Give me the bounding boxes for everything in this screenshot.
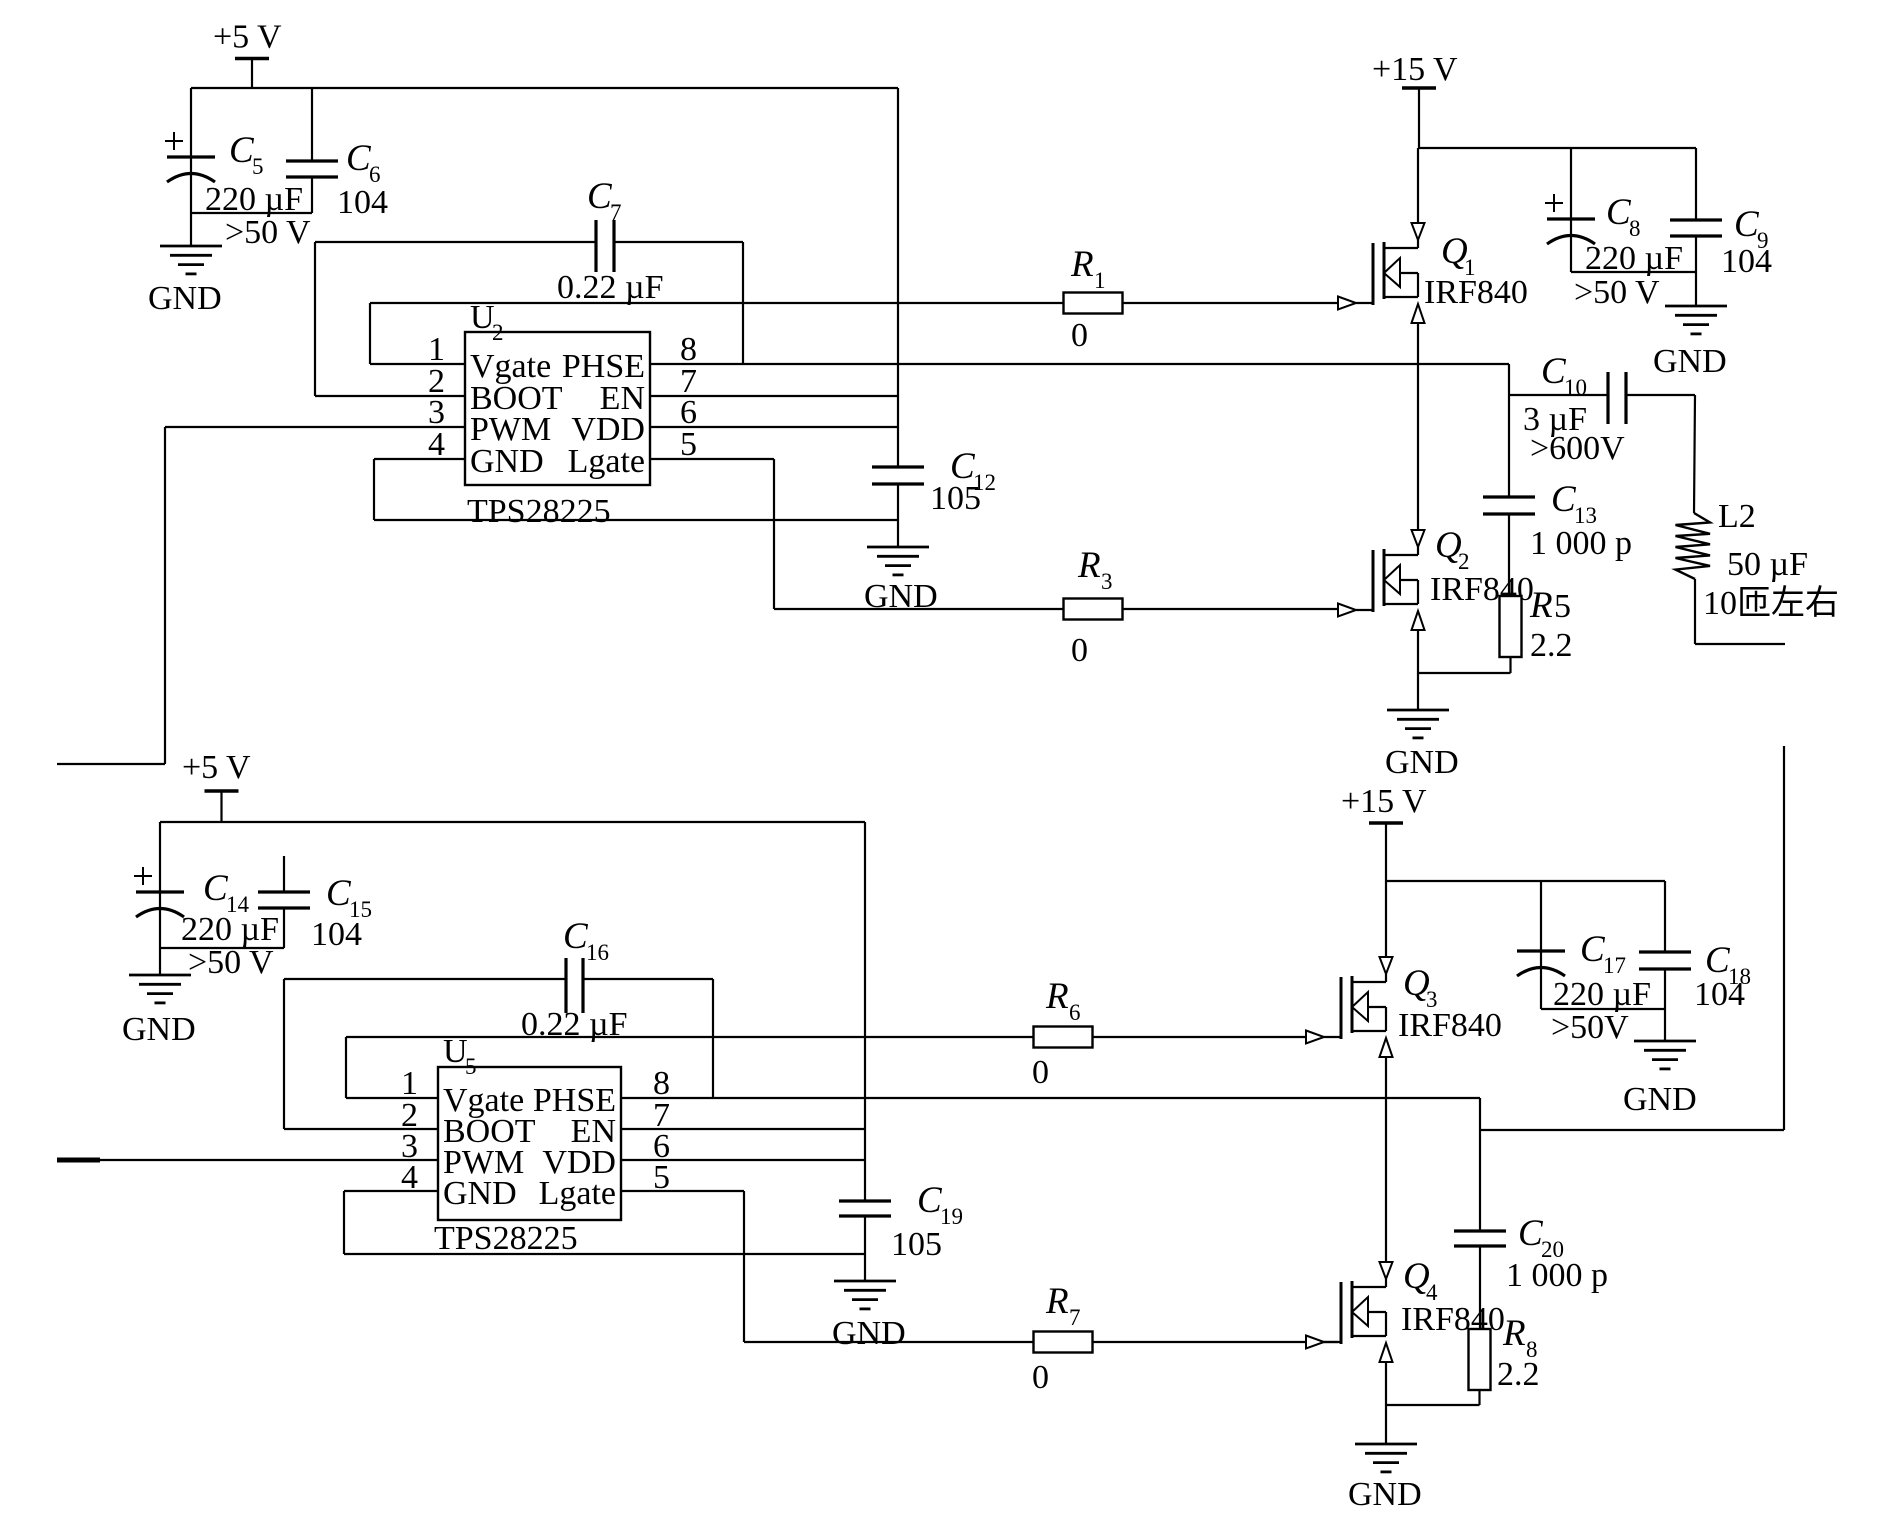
wire U5 pin5 lead (621, 1190, 744, 1192)
wire C16 right lead (583, 978, 713, 980)
wire +5V rail bottom (160, 821, 865, 823)
wire R5 bottom lead (1509, 657, 1511, 673)
svg-text:0: 0 (1071, 317, 1088, 354)
transistor Q2 (N-MOSFET) (1338, 530, 1425, 630)
svg-text:TPS28225: TPS28225 (434, 1220, 578, 1257)
svg-text:104: 104 (1694, 976, 1745, 1013)
wire C19 bottom lead (864, 1216, 866, 1281)
wire C10 right drop to L2 (1694, 395, 1695, 513)
wire C17 through lead (1540, 951, 1542, 1009)
wire U5 pin1 lead (346, 1097, 438, 1099)
wire Vgate drive line to R6/Q3 (346, 1036, 1306, 1038)
wire C14-C15 bottom join (160, 947, 284, 949)
wire U2 pin4 drop (373, 459, 375, 520)
ground GND below Q4 (1355, 1444, 1417, 1472)
resistor R1 (1064, 293, 1123, 314)
svg-text:IRF840: IRF840 (1398, 1007, 1502, 1044)
IC U2 TPS28225 (465, 332, 650, 485)
svg-text:3: 3 (1101, 569, 1113, 594)
svg-text:GND: GND (148, 280, 222, 317)
wire U2 pin3 lead (165, 426, 465, 428)
svg-text:2.2: 2.2 (1530, 627, 1573, 664)
svg-text:0: 0 (1032, 1054, 1049, 1091)
wire C5-C6 bottom join (191, 212, 312, 214)
wire +5V branch vertical to EN/VDD/C12 (897, 88, 899, 467)
wire U5 pin4 ground return (344, 1253, 865, 1255)
svg-text:220 µF: 220 µF (181, 911, 279, 948)
wire +15V rail to C8/C9 (1419, 147, 1696, 149)
wire Q3 drain feed (1385, 881, 1387, 957)
svg-text:104: 104 (337, 184, 388, 221)
wire Lgate drive line to R3/Q2 (774, 608, 1338, 610)
wire switch node Q3 source to Q4 drain (1385, 1056, 1387, 1262)
wire U2 pin7 EN lead (650, 395, 898, 397)
wire U2 pin6 VDD lead (650, 426, 898, 428)
svg-text:104: 104 (311, 916, 362, 953)
svg-text:GND: GND (1653, 343, 1727, 380)
wire Q4 source to ground (1385, 1361, 1387, 1444)
wire C16 left vertical to BOOT (283, 979, 285, 1129)
svg-text:+5 V: +5 V (213, 19, 282, 56)
capacitor C19 (839, 1201, 891, 1216)
wire U2 pin2 lead (315, 395, 465, 397)
power symbol +5V bottom (182, 749, 251, 791)
resistor R3 (1064, 599, 1123, 620)
wire C7 left lead (315, 241, 596, 243)
wire C14 top lead (159, 822, 161, 892)
svg-text:GND: GND (864, 578, 938, 615)
svg-text:17: 17 (1603, 953, 1626, 978)
capacitor C20 (1454, 1231, 1506, 1246)
svg-text:0: 0 (1032, 1359, 1049, 1396)
wire +5V rail top (191, 87, 898, 89)
svg-text:105: 105 (891, 1226, 942, 1263)
wire C6 bottom lead (311, 177, 313, 213)
wire return vertical right edge (1783, 746, 1785, 1130)
svg-text:10匝左右: 10匝左右 (1703, 584, 1839, 622)
wire C17 top lead (1540, 881, 1542, 951)
wire R8 bottom lead (1478, 1390, 1480, 1405)
svg-text:7: 7 (1069, 1305, 1081, 1330)
wire Q1 drain feed (1417, 148, 1419, 223)
svg-text:GND: GND (122, 1011, 196, 1048)
svg-text:IRF840: IRF840 (1424, 274, 1528, 311)
wire switch node Q1 source to Q2 drain (1417, 323, 1419, 530)
wire C5 top lead (190, 88, 192, 157)
svg-text:GND: GND (470, 443, 544, 480)
wire C5 through lead to GND (190, 157, 192, 246)
resistor R5 (1500, 596, 1522, 657)
svg-text:5: 5 (252, 154, 264, 179)
svg-text:5: 5 (680, 426, 697, 463)
wire C7 left vertical to BOOT (314, 242, 316, 396)
svg-text:>50 V: >50 V (1574, 274, 1660, 311)
wire C9 bottom lead (1695, 236, 1697, 306)
svg-text:4: 4 (428, 426, 445, 463)
ground GND below Q2 (1387, 710, 1449, 738)
svg-text:U: U (470, 299, 495, 336)
wire C15 bottom lead (283, 908, 285, 948)
capacitor C10 (1608, 372, 1626, 424)
wire Lgate drive line to R7/Q4 (744, 1341, 1338, 1343)
wire PWM input dash (bottom) (57, 1158, 100, 1163)
capacitor C8 (polarized) (1545, 194, 1595, 244)
svg-text:R: R (1502, 1313, 1526, 1354)
svg-text:U: U (443, 1033, 468, 1070)
wire +5V branch vertical to EN/VDD/C19 (864, 822, 866, 1201)
capacitor C16 (566, 958, 583, 1013)
svg-text:GND: GND (443, 1175, 517, 1212)
svg-text:R: R (1045, 1281, 1069, 1322)
svg-text:7: 7 (610, 200, 622, 225)
wire R5 to Q2 source join (1418, 672, 1511, 674)
wire U5 pin3 lead (99, 1159, 438, 1161)
power symbol +15V bottom (1341, 783, 1427, 823)
svg-text:5: 5 (1554, 588, 1571, 625)
resistor R7 (1034, 1332, 1093, 1353)
power symbol +15V top (1372, 51, 1458, 88)
svg-text:Lgate: Lgate (539, 1175, 616, 1212)
wire C13 to R5 (1508, 514, 1510, 596)
wire C12 bottom lead (897, 484, 899, 547)
wire C14 through lead (159, 892, 161, 975)
ground GND below C18 (1634, 1041, 1696, 1069)
ground GND below C9 (1665, 306, 1727, 334)
wire C16 right vertical to PHSE (712, 979, 714, 1098)
svg-text:+15 V: +15 V (1341, 783, 1427, 820)
wire C20 top lead (1479, 1130, 1481, 1231)
transistor Q3 (N-MOSFET) (1306, 957, 1393, 1057)
wire Q2 source to ground (1417, 629, 1419, 710)
svg-text:R: R (1045, 976, 1069, 1017)
wire U5 pin4 drop (343, 1191, 345, 1254)
svg-text:GND: GND (1385, 744, 1459, 781)
wire C8 top lead (1570, 148, 1572, 219)
wire PWM input stub (top) (57, 763, 165, 765)
wire C15 top stub (283, 856, 285, 892)
wire U5 pin6 VDD lead (621, 1159, 865, 1161)
wire Vgate drive line to R1/Q1 (370, 302, 1338, 304)
transistor Q4 (N-MOSFET) (1306, 1262, 1393, 1362)
svg-text:16: 16 (586, 940, 609, 965)
wire +5V stub (251, 59, 253, 89)
svg-text:1: 1 (1094, 268, 1106, 293)
wire C16 left lead (284, 978, 566, 980)
wire C9 top lead (1695, 148, 1697, 220)
wire phase jog across (1480, 1129, 1784, 1131)
wire U2 pin4 ground return (374, 519, 898, 521)
wire C7 right lead (614, 241, 743, 243)
wire C7 right vertical to PHSE (742, 242, 744, 364)
transistor Q1 (N-MOSFET) (1338, 223, 1425, 323)
svg-text:0: 0 (1071, 632, 1088, 669)
ground GND below C19 (834, 1281, 896, 1309)
svg-text:Lgate: Lgate (568, 443, 645, 480)
capacitor C14 (polarized) (134, 867, 184, 917)
wire U2 pin5 drop (773, 459, 775, 609)
svg-text:5: 5 (465, 1054, 477, 1079)
svg-text:GND: GND (1348, 1476, 1422, 1513)
wire U5 pin7 EN lead (621, 1128, 865, 1130)
wire U5 pin4 lead (344, 1190, 438, 1192)
resistor R6 (1034, 1027, 1093, 1048)
svg-text:50 µF: 50 µF (1727, 546, 1808, 583)
svg-text:2: 2 (492, 320, 504, 345)
svg-text:R: R (1070, 244, 1094, 285)
svg-text:+5 V: +5 V (182, 749, 251, 786)
wire U5 pin1 riser (345, 1037, 347, 1098)
svg-text:10: 10 (1564, 375, 1587, 400)
wire C10 right lead (1626, 394, 1695, 396)
wire C8 through lead (1570, 219, 1572, 272)
capacitor C12 (872, 467, 924, 484)
svg-text:L2: L2 (1718, 498, 1756, 535)
wire phase line PHSE to switch node (650, 363, 1509, 365)
wire C10 left lead (1509, 394, 1608, 396)
capacitor C6 (286, 161, 338, 177)
wire phase jog down (1479, 1098, 1481, 1130)
power symbol +5V top (213, 19, 282, 59)
wire +15V rail to C17/C18 (1386, 880, 1665, 882)
wire U2 pin1 lead (370, 363, 465, 365)
wire C8-C9 bottom join (1571, 271, 1696, 273)
wire U2 pin4 lead (374, 458, 465, 460)
svg-text:+15 V: +15 V (1372, 51, 1458, 88)
svg-text:0.22 µF: 0.22 µF (557, 269, 664, 306)
IC U5 TPS28225 (438, 1067, 621, 1220)
wire C18 bottom lead (1664, 969, 1666, 1041)
capacitor C13 (1483, 497, 1535, 514)
wire output stub (1695, 643, 1785, 645)
svg-text:GND: GND (1623, 1081, 1697, 1118)
wire U5 pin2 lead (284, 1128, 438, 1130)
svg-text:220 µF: 220 µF (1553, 976, 1651, 1013)
svg-text:105: 105 (930, 480, 981, 517)
svg-text:1 000 p: 1 000 p (1506, 1257, 1608, 1294)
wire +15V stub (1418, 88, 1420, 148)
svg-text:>50 V: >50 V (188, 944, 274, 981)
ground GND below C5 (160, 246, 222, 274)
capacitor C5 (polarized) (165, 132, 215, 182)
wire L2 bottom lead (1694, 579, 1696, 644)
wire phase drop to C10/C13 (1508, 364, 1510, 497)
svg-text:>50V: >50V (1551, 1009, 1629, 1046)
ground GND below C12 (867, 547, 929, 575)
svg-text:>600V: >600V (1530, 430, 1625, 467)
capacitor C9 (1670, 220, 1722, 236)
inductor L2 (1676, 513, 1711, 579)
svg-text:1 000 p: 1 000 p (1530, 525, 1632, 562)
svg-text:104: 104 (1721, 243, 1772, 280)
svg-text:TPS28225: TPS28225 (467, 493, 611, 530)
capacitor C15 (258, 892, 310, 908)
capacitor C7 (596, 220, 614, 272)
wire U2 pin5 lead (650, 458, 774, 460)
wire C17-C18 bottom join (1541, 1008, 1665, 1010)
capacitor C17 (polarized) (1517, 951, 1565, 976)
ground GND below C14 (129, 975, 191, 1003)
wire +15V stub bottom (1385, 823, 1387, 881)
wire C20 to R8 (1479, 1246, 1481, 1329)
svg-text:8: 8 (1629, 216, 1641, 241)
resistor R8 (1469, 1329, 1491, 1390)
svg-text:R: R (1529, 585, 1553, 626)
svg-text:19: 19 (940, 1204, 963, 1229)
svg-text:>50 V: >50 V (225, 214, 311, 251)
svg-text:2.2: 2.2 (1497, 1356, 1540, 1393)
wire PWM input riser (top) (164, 427, 166, 764)
wire phase line PHSE (bottom) (621, 1097, 1480, 1099)
wire +5V stub bottom (220, 791, 222, 822)
capacitor C18 (1639, 952, 1691, 969)
wire U5 pin5 drop (743, 1191, 745, 1342)
wire C18 top lead (1664, 881, 1666, 952)
wire C6 top lead (311, 88, 313, 161)
svg-text:GND: GND (832, 1315, 906, 1352)
wire U2 pin1 riser (369, 303, 371, 364)
svg-text:6: 6 (1069, 1000, 1081, 1025)
svg-text:R: R (1077, 545, 1101, 586)
wire R8 to Q4 source join (1386, 1404, 1480, 1406)
